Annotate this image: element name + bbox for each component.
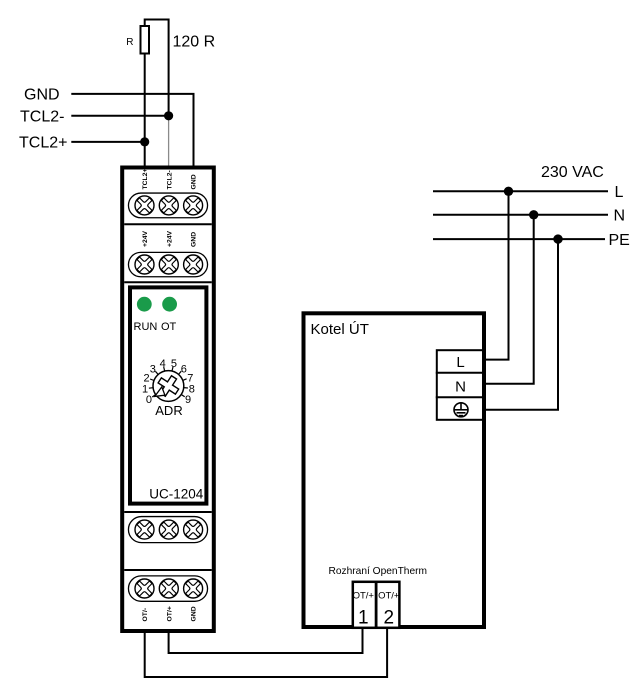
terminal screw OT/- — [132, 576, 157, 601]
svg-text:4: 4 — [160, 358, 166, 370]
svg-text:R: R — [126, 37, 133, 48]
junction L — [504, 187, 513, 196]
wire PE drop to boiler — [484, 239, 558, 410]
wire L drop to boiler — [484, 191, 509, 359]
svg-text:TCL2+: TCL2+ — [19, 135, 67, 152]
boiler mains terminal block — [436, 350, 483, 420]
net label N — [614, 208, 626, 225]
wire resistor bottom to TCL2+ terminal — [144, 54, 146, 167]
wire OT/- module to boiler terminal 2 — [145, 627, 387, 677]
svg-text:TCL2-: TCL2- — [166, 170, 173, 189]
terminal screw row3-2 — [156, 517, 181, 542]
junction TCL2- — [164, 111, 173, 120]
svg-text:ADR: ADR — [155, 403, 182, 418]
svg-text:3: 3 — [150, 363, 156, 375]
junction TCL2+ — [140, 137, 149, 146]
LED OT — [162, 297, 177, 312]
terminal screw TCL2+ — [132, 193, 157, 218]
wire TCL2+ — [71, 141, 144, 143]
boiler terminal label N — [455, 379, 466, 396]
svg-text:5: 5 — [171, 358, 177, 370]
svg-text:GND: GND — [191, 606, 198, 621]
svg-text:Kotel ÚT: Kotel ÚT — [311, 321, 369, 338]
terminal screw OT/+ — [156, 576, 181, 601]
svg-text:PE: PE — [609, 232, 630, 249]
terminal screw GND (OT) — [181, 576, 206, 601]
terminal strip row 4 — [128, 576, 207, 601]
svg-text:1: 1 — [358, 608, 369, 629]
svg-text:OT: OT — [161, 321, 177, 333]
wire L supply — [433, 190, 608, 192]
LED labels RUN OT — [134, 321, 177, 333]
svg-text:TCL2+: TCL2+ — [142, 169, 149, 190]
svg-text:OT/+: OT/+ — [166, 606, 173, 621]
rotary switch tick marks — [149, 367, 188, 397]
pin label GND (power) — [191, 232, 198, 247]
wire TCL2- — [71, 115, 168, 117]
terminal strip row 1 — [128, 193, 207, 218]
wire N supply — [433, 214, 608, 216]
wire GND — [71, 94, 193, 166]
svg-text:1: 1 — [142, 384, 148, 396]
wire OT/+ module to boiler terminal 1 — [169, 627, 363, 653]
pin label GND (OT) — [191, 606, 198, 621]
label 230 VAC — [541, 164, 604, 181]
svg-text:9: 9 — [185, 394, 191, 406]
pin label +24V (2) — [166, 230, 173, 247]
svg-text:OT/+: OT/+ — [378, 591, 400, 602]
svg-text:OT/+: OT/+ — [353, 591, 375, 602]
node TCL2- label — [20, 109, 64, 126]
terminal screw +24V (1) — [132, 252, 157, 277]
svg-text:Rozhraní OpenTherm: Rozhraní OpenTherm — [329, 566, 428, 577]
terminal strip row 3 — [128, 517, 207, 543]
pin label OT/- — [142, 608, 149, 622]
module type label UC-1204 — [149, 487, 204, 502]
boiler terminal label L — [456, 354, 464, 371]
svg-text:L: L — [456, 354, 464, 371]
resistor R (120 ohm termination) — [126, 26, 149, 54]
junction N — [529, 210, 538, 219]
wire TCL2- node to module terminal (thin) — [168, 116, 170, 166]
svg-text:2: 2 — [384, 608, 395, 629]
junction PE — [553, 234, 562, 243]
svg-text:TCL2-: TCL2- — [20, 109, 64, 126]
pin label +24V (1) — [142, 230, 149, 247]
rotary switch ADR body — [153, 371, 184, 402]
terminal screw GND — [181, 193, 206, 218]
svg-text:230 VAC: 230 VAC — [541, 164, 604, 181]
value label 120 R — [173, 34, 216, 51]
node TCL2+ label — [19, 135, 67, 152]
svg-text:UC-1204: UC-1204 — [149, 487, 204, 502]
pin label OT/+ — [166, 606, 173, 621]
svg-text:6: 6 — [181, 363, 187, 375]
terminal screw row3-3 — [181, 517, 206, 542]
earth symbol PE terminal — [454, 403, 468, 417]
svg-text:120 R: 120 R — [173, 34, 216, 51]
label Rozhrani OpenTherm — [329, 566, 428, 577]
svg-text:N: N — [614, 208, 626, 225]
module U1 UC-1204 body — [122, 168, 214, 632]
svg-text:L: L — [615, 184, 624, 201]
svg-text:+24V: +24V — [142, 230, 149, 247]
net label L — [615, 184, 624, 201]
boiler Kotel UT box — [304, 313, 485, 627]
svg-text:0: 0 — [146, 394, 152, 406]
svg-text:GND: GND — [191, 232, 198, 247]
pin label TCL2- — [166, 170, 173, 189]
svg-text:GND: GND — [24, 87, 60, 104]
terminal screw +24V (2) — [156, 252, 181, 277]
terminal screw TCL2- — [156, 193, 181, 218]
node GND label — [24, 87, 60, 104]
svg-text:OT/-: OT/- — [142, 608, 149, 622]
svg-text:N: N — [455, 379, 466, 396]
boiler OT terminal 1 — [353, 591, 375, 629]
svg-text:2: 2 — [143, 373, 149, 385]
net label PE — [609, 232, 630, 249]
terminal strip row 2 — [128, 252, 207, 276]
wire resistor top to TCL2- branch — [145, 20, 169, 116]
terminal screw row3-1 — [132, 517, 157, 542]
boiler OT terminal 2 — [378, 591, 400, 629]
boiler OT terminal block — [353, 582, 400, 628]
wire N drop to boiler — [484, 215, 534, 384]
rotary switch digits 0-9 — [142, 358, 195, 406]
svg-text:RUN: RUN — [134, 321, 158, 333]
module front panel — [130, 287, 206, 503]
rotary switch label ADR — [155, 403, 182, 418]
pin label GND — [191, 174, 198, 189]
svg-text:GND: GND — [191, 174, 198, 189]
terminal screw GND (power) — [181, 252, 206, 277]
wire PE supply — [433, 238, 605, 240]
svg-text:+24V: +24V — [166, 230, 173, 247]
pin label TCL2+ — [142, 169, 149, 190]
LED RUN — [137, 297, 152, 312]
